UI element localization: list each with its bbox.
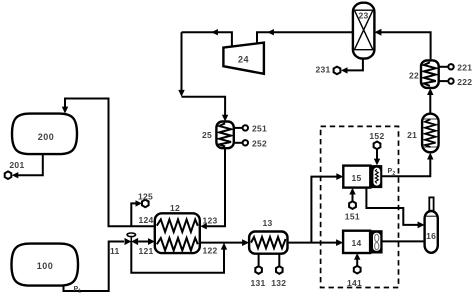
label 132 — [271, 278, 286, 288]
wire valve to HX12 inlet 121 — [138, 238, 155, 245]
label 251 — [252, 124, 267, 134]
node 125 — [142, 200, 149, 208]
svg-text:251: 251 — [252, 124, 267, 134]
svg-text:24: 24 — [238, 55, 249, 65]
svg-text:125: 125 — [138, 192, 153, 202]
heat exchanger 13 — [249, 232, 287, 254]
label 252 — [252, 139, 267, 149]
svg-text:11: 11 — [110, 246, 120, 256]
svg-text:221: 221 — [457, 63, 472, 73]
node 251 — [243, 125, 248, 130]
svg-text:121: 121 — [139, 246, 154, 256]
component 15 box — [343, 166, 370, 188]
wire 23 bottom to 231 — [341, 59, 363, 74]
component 14 pump insert — [371, 231, 382, 253]
wire 123 from HX25 down into HX12 — [200, 149, 225, 230]
svg-text:12: 12 — [170, 203, 180, 213]
svg-text:200: 200 — [38, 132, 55, 142]
wire 152 stem — [374, 149, 380, 165]
label P1 — [74, 286, 82, 295]
wire 141 stem — [354, 253, 360, 266]
svg-text:141: 141 — [347, 278, 362, 288]
svg-text:222: 222 — [457, 77, 472, 87]
wire 22 to column 23 — [374, 29, 430, 61]
tank 100 — [12, 244, 79, 286]
wire 122 from HX12 to HX13 — [200, 239, 249, 246]
turbine 24 — [223, 43, 264, 74]
label 231 — [316, 65, 331, 75]
label 25 — [202, 130, 212, 140]
label 222 — [457, 77, 472, 87]
label 11 — [110, 246, 120, 256]
label 13 — [262, 218, 272, 228]
svg-text:21: 21 — [407, 130, 417, 140]
label 151 — [345, 212, 360, 222]
node 231 — [334, 67, 341, 75]
svg-text:124: 124 — [138, 215, 153, 225]
wire 21 to 22 — [427, 88, 433, 114]
svg-text:1: 1 — [78, 289, 81, 295]
wire valve bypass (down and right to junction) — [131, 242, 227, 273]
wire P1 from tank 100 to valve 11 — [64, 242, 125, 292]
vessel 21 — [422, 114, 439, 153]
wire 151 stem — [349, 188, 355, 202]
svg-text:152: 152 — [369, 131, 384, 141]
node 151 — [349, 201, 356, 209]
node 141 — [354, 266, 361, 274]
svg-text:23: 23 — [358, 11, 368, 21]
heat exchanger 25 — [216, 122, 233, 149]
component 15 coil insert — [372, 166, 382, 188]
label 125 — [138, 192, 153, 202]
svg-text:13: 13 — [262, 218, 272, 228]
node 131 — [255, 266, 262, 274]
heat exchanger 12 — [155, 213, 200, 253]
wire 23 to turbine 24 — [257, 29, 353, 45]
wire 15 bottom to vessel 16 — [366, 188, 424, 229]
node 221 — [448, 64, 453, 69]
label 22 — [409, 71, 419, 81]
wire 221 stub — [439, 66, 449, 68]
column 23 — [353, 3, 375, 59]
wire 13 outlet split to 14 and 15 — [288, 173, 344, 246]
component 14 box — [343, 231, 370, 253]
svg-text:151: 151 — [345, 212, 360, 222]
wire 14 outlet to vessel 16 — [382, 240, 425, 242]
node 222 — [448, 78, 453, 83]
label 12 — [170, 203, 180, 213]
label 141 — [347, 278, 362, 288]
heat exchanger 22 — [421, 60, 439, 88]
label 16 — [426, 231, 436, 241]
label 24 — [238, 55, 249, 65]
svg-text:122: 122 — [203, 246, 218, 256]
wire 222 stub — [439, 80, 449, 82]
label 201 — [9, 160, 24, 170]
tank 200 — [12, 114, 77, 155]
svg-text:22: 22 — [409, 71, 419, 81]
label 23 — [358, 11, 368, 21]
dashed enclosure — [321, 126, 399, 287]
label 123 — [203, 216, 218, 226]
svg-text:16: 16 — [426, 231, 436, 241]
label 14 — [351, 238, 361, 248]
label 21 — [407, 130, 417, 140]
wire 132 stub — [278, 254, 280, 266]
label 200 — [38, 132, 55, 142]
label 221 — [457, 63, 472, 73]
node 132 — [276, 266, 283, 274]
label 152 — [369, 131, 384, 141]
svg-text:100: 100 — [37, 261, 54, 271]
label 15 — [351, 173, 361, 183]
node 252 — [243, 140, 248, 145]
label 121 — [139, 246, 154, 256]
svg-text:14: 14 — [351, 238, 361, 248]
svg-text:231: 231 — [316, 65, 331, 75]
svg-text:132: 132 — [271, 278, 286, 288]
label 131 — [251, 278, 266, 288]
node 201 — [5, 171, 12, 179]
wire turbine outlet loop to HX25 — [178, 29, 232, 122]
wire 251 stub — [234, 127, 243, 129]
valve 11 — [125, 233, 139, 245]
svg-text:25: 25 — [202, 130, 212, 140]
svg-text:15: 15 — [351, 173, 361, 183]
wire 131 stub — [258, 254, 260, 266]
wire 125 branch — [131, 200, 142, 226]
wire 15 P2 outlet to vessel 21 — [382, 153, 434, 177]
wire 200 outlet to 201 — [12, 155, 43, 179]
node 152 — [374, 142, 381, 150]
vessel 16 — [425, 211, 438, 253]
svg-text:123: 123 — [203, 216, 218, 226]
label P2 — [388, 168, 396, 177]
label 122 — [203, 246, 218, 256]
svg-text:131: 131 — [251, 278, 266, 288]
wire 252 stub — [234, 142, 243, 144]
svg-text:201: 201 — [9, 160, 24, 170]
label 100 — [37, 261, 54, 271]
wire 200 inlet (from HX12 line 124 up and into tank 200) — [62, 99, 155, 227]
label 124 — [138, 215, 153, 225]
svg-text:252: 252 — [252, 139, 267, 149]
vessel 16 nozzle — [429, 197, 433, 211]
